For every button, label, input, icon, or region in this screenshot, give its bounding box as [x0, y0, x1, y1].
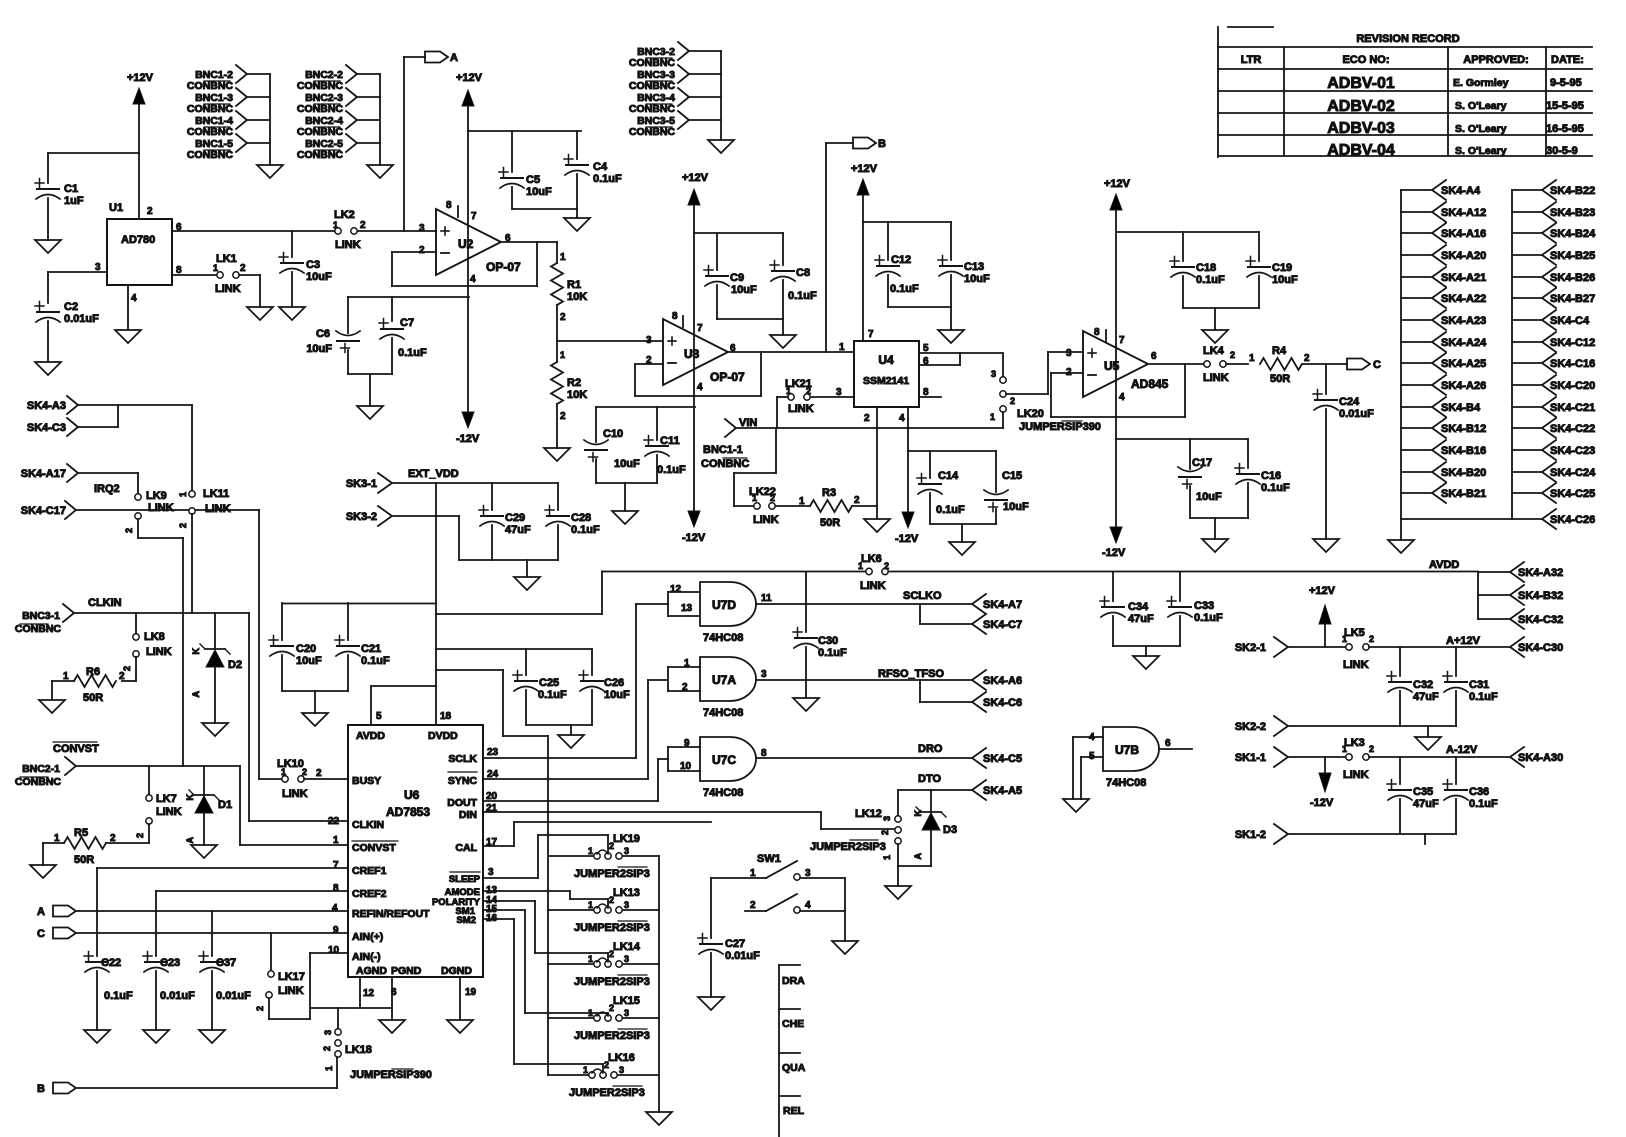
wire LK12 pin1 to ground [898, 844, 931, 886]
switch SW1 [711, 853, 845, 941]
svg-text:10uF: 10uF [1272, 274, 1298, 286]
wire C6/C7 top [348, 296, 469, 298]
svg-text:2: 2 [682, 682, 688, 693]
net label CONVST [53, 742, 99, 755]
svg-text:LINK: LINK [860, 580, 886, 592]
svg-text:0.1uF: 0.1uF [571, 524, 600, 536]
ground U4 pin2 [864, 519, 890, 532]
svg-text:K: K [913, 810, 923, 817]
svg-text:SK4-B24: SK4-B24 [1550, 228, 1596, 240]
ground U7B inputs [1063, 799, 1089, 812]
svg-text:1: 1 [752, 493, 757, 503]
power -12V (U3) [682, 511, 706, 544]
ground SK2-2 [1415, 726, 1441, 750]
svg-text:-12V: -12V [895, 533, 919, 545]
svg-text:AVDD: AVDD [356, 730, 385, 742]
svg-text:0.1uF: 0.1uF [361, 655, 390, 667]
svg-text:C30: C30 [818, 635, 838, 647]
svg-text:RFSO_TFSO: RFSO_TFSO [878, 668, 944, 680]
ground D2 [202, 723, 228, 736]
wire R1/R2 junction to U3 [557, 340, 663, 342]
zener diode D1 [185, 766, 232, 845]
connector SK4-C5 [972, 748, 1022, 768]
svg-text:SK4-C24: SK4-C24 [1550, 467, 1596, 479]
svg-text:SSM2141: SSM2141 [863, 375, 909, 387]
resistor R1 10K [551, 242, 587, 362]
svg-text:SK4-C26: SK4-C26 [1550, 514, 1595, 526]
svg-text:A-12V: A-12V [1446, 744, 1478, 756]
svg-text:CONBNC: CONBNC [629, 80, 675, 92]
connector SK1-2 [1235, 824, 1456, 844]
svg-text:2: 2 [124, 528, 134, 533]
svg-text:LK3: LK3 [1344, 737, 1365, 749]
wire CREF1 [97, 867, 348, 869]
wire VIN node [736, 397, 1003, 428]
wire C12/C13 bottom [888, 307, 951, 330]
svg-text:C28: C28 [571, 512, 591, 524]
svg-text:16-5-95: 16-5-95 [1546, 123, 1584, 135]
svg-text:CONBNC: CONBNC [187, 80, 233, 92]
capacitor C17 [1178, 439, 1222, 518]
capacitor C21 [335, 603, 390, 691]
link LK2 [333, 209, 366, 251]
svg-text:1: 1 [324, 1066, 334, 1071]
svg-text:7: 7 [697, 323, 703, 334]
ground D1 [191, 845, 217, 858]
power +12V (U5) [1104, 178, 1131, 527]
revision row ADBV-04 [1327, 142, 1578, 159]
svg-text:10uF: 10uF [614, 458, 640, 470]
svg-text:2: 2 [806, 386, 811, 396]
ground C2 [35, 362, 61, 375]
svg-text:LINK: LINK [753, 514, 779, 526]
net label A-12V [1446, 744, 1478, 756]
svg-text:C21: C21 [361, 643, 381, 655]
svg-text:JUMPER2SIP3: JUMPER2SIP3 [574, 922, 650, 934]
wire CLKIN [74, 613, 348, 821]
svg-text:SK4-A26: SK4-A26 [1441, 380, 1486, 392]
svg-text:REVISION RECORD: REVISION RECORD [1356, 33, 1459, 45]
wire SCLK0 net [756, 590, 972, 624]
ground C3 [279, 307, 305, 320]
svg-text:LK15: LK15 [613, 995, 640, 1007]
svg-text:2: 2 [119, 671, 125, 682]
svg-text:AVDD: AVDD [1429, 559, 1459, 571]
svg-text:LK6: LK6 [861, 553, 882, 565]
svg-text:2: 2 [560, 411, 566, 422]
svg-text:C20: C20 [296, 643, 316, 655]
svg-text:5: 5 [376, 711, 382, 722]
svg-text:C17: C17 [1192, 457, 1212, 469]
wire SLEEP to LK19 [483, 835, 608, 878]
capacitor C22 [84, 868, 133, 1030]
op-amp U2 [419, 200, 521, 285]
svg-text:C16: C16 [1261, 470, 1281, 482]
svg-text:SK4-A25: SK4-A25 [1441, 358, 1486, 370]
svg-text:13: 13 [681, 603, 693, 614]
IC U4 SSM2141 [836, 329, 929, 424]
capacitor C24 [1313, 364, 1374, 539]
svg-text:ADBV-01: ADBV-01 [1327, 75, 1395, 92]
svg-text:IRQ2: IRQ2 [94, 483, 120, 495]
svg-text:R1: R1 [567, 279, 581, 291]
svg-text:4: 4 [470, 274, 476, 285]
capacitor C10 [584, 407, 640, 483]
svg-text:19: 19 [465, 987, 477, 998]
capacitor C25 [513, 649, 567, 725]
svg-text:SK1-1: SK1-1 [1235, 752, 1266, 764]
wire U4 pins 5/6 [919, 353, 1002, 365]
link LK5 [1342, 627, 1510, 671]
net label A+12V [1446, 635, 1481, 647]
wire SM2 to LK16 [483, 919, 603, 1071]
svg-text:18: 18 [440, 711, 452, 722]
svg-text:LINK: LINK [1343, 659, 1369, 671]
capacitor C5 [499, 131, 552, 209]
svg-text:DRO: DRO [918, 743, 943, 755]
svg-text:PGND: PGND [391, 965, 422, 977]
svg-text:3: 3 [95, 262, 101, 273]
svg-text:1: 1 [588, 846, 593, 856]
svg-text:C4: C4 [593, 161, 608, 173]
svg-text:DOUT: DOUT [447, 797, 477, 809]
svg-text:CONBNC: CONBNC [297, 126, 343, 138]
svg-text:47uF: 47uF [1413, 798, 1439, 810]
svg-text:U5: U5 [1104, 359, 1120, 373]
svg-text:ADBV-04: ADBV-04 [1327, 142, 1395, 159]
IC U1 AD780 [95, 202, 182, 304]
svg-text:1: 1 [990, 412, 995, 422]
svg-text:AD780: AD780 [121, 234, 155, 246]
svg-text:R2: R2 [567, 377, 581, 389]
wire C6/C7 bottom [348, 374, 392, 406]
ground C20/C21 [302, 713, 328, 726]
svg-text:74HC08: 74HC08 [1106, 777, 1146, 789]
svg-text:BNC2-1: BNC2-1 [22, 763, 60, 775]
capacitor C32 [1387, 647, 1439, 726]
svg-text:CONBNC: CONBNC [15, 776, 61, 788]
wire EXT_VDD [392, 483, 558, 725]
link LK11 [178, 488, 231, 613]
wire DTO net [898, 773, 972, 816]
ground C37 [199, 1030, 225, 1043]
svg-text:E. Gormley: E. Gormley [1453, 77, 1509, 89]
svg-text:C10: C10 [603, 428, 623, 440]
node C flag [1347, 359, 1381, 372]
svg-text:SK4-C23: SK4-C23 [1550, 445, 1595, 457]
link LK3 [1342, 737, 1510, 781]
svg-text:2: 2 [1304, 353, 1310, 364]
svg-text:AD7853: AD7853 [386, 805, 430, 819]
svg-text:4: 4 [697, 382, 703, 393]
svg-text:0.01uF: 0.01uF [1339, 408, 1374, 420]
svg-text:A+12V: A+12V [1446, 635, 1481, 647]
IC U6 AD7853 [348, 725, 483, 977]
svg-text:LK19: LK19 [613, 833, 640, 845]
wire U3 output to U4 [727, 351, 853, 353]
svg-text:3: 3 [323, 1030, 333, 1035]
svg-text:LK12: LK12 [855, 808, 882, 820]
svg-text:SK4-B32: SK4-B32 [1518, 590, 1563, 602]
svg-text:2: 2 [360, 220, 366, 231]
svg-text:CONBNC: CONBNC [629, 126, 675, 138]
wire C16/C17 branch [1116, 438, 1248, 440]
svg-text:0.1uF: 0.1uF [398, 347, 427, 359]
connector SK2-1 [1235, 637, 1345, 657]
svg-text:LK11: LK11 [203, 488, 229, 500]
jumper LK16 JUMPER2SIP3 [569, 1052, 645, 1099]
AND gate U7D 74HC08 [668, 582, 772, 644]
svg-text:APPROVED:: APPROVED: [1463, 54, 1528, 66]
svg-text:OP-07: OP-07 [486, 260, 521, 274]
svg-text:SK4-C6: SK4-C6 [983, 697, 1022, 709]
capacitor C1 [35, 153, 84, 240]
svg-text:U3: U3 [684, 347, 700, 361]
wire U4 pin3 from LK21 [810, 396, 854, 398]
link LK7 [135, 766, 182, 843]
svg-text:1: 1 [583, 1065, 588, 1075]
wire IRQ2 [76, 510, 282, 779]
wire C8/C9 branch [694, 232, 783, 234]
ground jumper bus [646, 1112, 672, 1125]
wire DVDD to C25/C26 [436, 648, 592, 650]
svg-text:SK4-A20: SK4-A20 [1441, 250, 1486, 262]
connector SK2-2 [1235, 716, 1456, 736]
svg-text:U7C: U7C [712, 753, 736, 767]
svg-text:C8: C8 [796, 267, 810, 279]
svg-text:R4: R4 [1272, 345, 1287, 357]
connector SK4-C17 IRQ2 [21, 483, 120, 519]
svg-text:C15: C15 [1002, 470, 1022, 482]
svg-text:10uF: 10uF [1196, 491, 1222, 503]
capacitor C14 [917, 451, 965, 524]
wire CONVST net [76, 766, 348, 845]
svg-text:A: A [191, 691, 201, 698]
ground C10/C11 [612, 511, 638, 524]
svg-text:1: 1 [213, 263, 218, 273]
svg-text:2: 2 [147, 206, 153, 217]
power +12V (U3) [682, 172, 709, 510]
svg-text:A: A [37, 906, 45, 918]
ground C1 [35, 240, 61, 253]
svg-text:3: 3 [882, 816, 892, 821]
svg-text:1: 1 [1249, 353, 1255, 364]
svg-text:8: 8 [333, 883, 339, 894]
svg-text:SK4-C30: SK4-C30 [1518, 642, 1563, 654]
svg-text:R5: R5 [74, 827, 88, 839]
svg-text:-12V: -12V [682, 532, 706, 544]
svg-text:U7B: U7B [1115, 743, 1139, 757]
svg-text:3: 3 [619, 1065, 624, 1075]
wire LK22 to R3 [776, 505, 810, 507]
svg-text:C: C [1373, 359, 1381, 371]
svg-text:0.01uF: 0.01uF [64, 313, 99, 325]
wire C10/C11 top [596, 406, 695, 408]
wire LK17 to AIN- net [269, 953, 348, 1019]
ground C24 [1313, 539, 1339, 552]
wire SK3-2 to cap bottoms [392, 516, 558, 577]
svg-text:50R: 50R [820, 517, 840, 529]
svg-text:9-5-95: 9-5-95 [1550, 77, 1582, 89]
capacitor C30 [793, 572, 847, 698]
svg-text:8: 8 [1094, 327, 1100, 338]
svg-text:0.1uF: 0.1uF [1261, 482, 1290, 494]
connector SK4-C7 [972, 614, 1022, 634]
svg-text:D1: D1 [218, 799, 232, 811]
wire DOUT [483, 759, 668, 801]
svg-text:ECO NO:: ECO NO: [1342, 54, 1389, 66]
svg-text:LK14: LK14 [613, 941, 641, 953]
svg-text:BUSY: BUSY [352, 775, 381, 787]
svg-text:1: 1 [588, 900, 593, 910]
wire U6 pin5 AVDD [371, 686, 452, 725]
svg-text:30-5-9: 30-5-9 [1546, 145, 1578, 157]
ground C12/C13 [938, 330, 964, 343]
svg-text:47uF: 47uF [1128, 613, 1154, 625]
ground LK1 [247, 307, 273, 320]
svg-text:SK4-A16: SK4-A16 [1441, 228, 1486, 240]
capacitor C20 [269, 603, 322, 691]
capacitor C35 [1387, 757, 1439, 834]
svg-text:5: 5 [1089, 751, 1095, 762]
svg-text:SK1-2: SK1-2 [1235, 829, 1266, 841]
wire DRO net [756, 743, 972, 758]
capacitor C12 [875, 222, 919, 307]
svg-text:74HC08: 74HC08 [703, 632, 743, 644]
svg-text:C3: C3 [306, 259, 320, 271]
svg-text:U7A: U7A [712, 673, 736, 687]
svg-text:9: 9 [684, 738, 690, 749]
capacitor C3 [279, 231, 332, 307]
wire U1 pin6 to LK2 [172, 230, 334, 232]
svg-text:SK4-B22: SK4-B22 [1550, 185, 1595, 197]
revision table header [1241, 54, 1584, 66]
wire C4/C5 branch [468, 130, 581, 132]
power -12V (U5) [1102, 527, 1126, 559]
svg-text:2: 2 [419, 245, 425, 256]
svg-text:1: 1 [882, 855, 892, 860]
connector SK4-C6 [972, 692, 1022, 712]
svg-text:SYNC: SYNC [448, 775, 478, 787]
connector BNC2-1 CONVST [15, 757, 76, 788]
svg-text:LINK: LINK [788, 403, 814, 415]
svg-text:3: 3 [419, 223, 425, 234]
svg-text:SK4-B25: SK4-B25 [1550, 250, 1595, 262]
wire SM1 to LK15 [483, 910, 608, 1014]
svg-text:SK4-A30: SK4-A30 [1518, 752, 1563, 764]
svg-text:SK4-A6: SK4-A6 [983, 675, 1022, 687]
svg-text:0.1uF: 0.1uF [818, 647, 847, 659]
svg-text:CLKIN: CLKIN [88, 597, 122, 609]
power -12V (U2) [456, 412, 480, 445]
jumper LK18 JUMPERSIP390 [322, 1008, 432, 1081]
zener diode D3 [913, 790, 957, 866]
svg-text:SK4-C3: SK4-C3 [27, 422, 66, 434]
svg-text:SCLKO: SCLKO [903, 590, 942, 602]
svg-text:SK4-A17: SK4-A17 [21, 468, 66, 480]
wire LK1 pin2 to ground [239, 275, 260, 307]
connector BNC2-2..BNC2-5 group [297, 65, 393, 178]
svg-text:-12V: -12V [1310, 797, 1334, 809]
svg-text:-12V: -12V [456, 433, 480, 445]
resistor R3 50R [799, 487, 877, 529]
svg-text:1: 1 [839, 342, 845, 353]
svg-text:SCLK: SCLK [448, 753, 477, 765]
node A flag [404, 52, 458, 232]
svg-text:OP-07: OP-07 [710, 370, 745, 384]
svg-text:SK4-B20: SK4-B20 [1441, 467, 1486, 479]
ground DGND [447, 1020, 473, 1033]
ground C6/C7 [357, 406, 383, 419]
wire C12/C13 branch [863, 221, 951, 223]
wire U1 pin4 [127, 285, 129, 330]
svg-text:A: A [185, 837, 195, 844]
svg-text:C29: C29 [505, 512, 525, 524]
link LK9 [124, 490, 174, 533]
svg-text:1: 1 [588, 954, 593, 964]
svg-text:0.1uF: 0.1uF [890, 283, 919, 295]
wire C1 branch [48, 152, 139, 154]
svg-text:U2: U2 [458, 237, 474, 251]
svg-text:JUMPER2SIP3: JUMPER2SIP3 [574, 868, 650, 880]
svg-text:LK18: LK18 [345, 1044, 372, 1056]
node C flag (AIN+) [37, 928, 348, 941]
connector SK3-2 [346, 506, 392, 526]
svg-text:LK5: LK5 [1344, 627, 1365, 639]
svg-text:10uF: 10uF [604, 689, 630, 701]
capacitor C9 [704, 233, 757, 319]
svg-text:2: 2 [854, 495, 860, 506]
svg-text:CAL: CAL [455, 842, 477, 854]
svg-text:3: 3 [624, 954, 629, 964]
svg-text:CONBNC: CONBNC [629, 57, 675, 69]
svg-text:S. O'Leary: S. O'Leary [1455, 100, 1507, 112]
wire C14/C15 branch [908, 450, 996, 452]
ground R5 [30, 865, 56, 878]
svg-text:SK4-B12: SK4-B12 [1441, 423, 1486, 435]
title block table [779, 965, 806, 1137]
svg-text:2: 2 [1369, 634, 1374, 644]
AND gate U7B 74HC08 [1073, 727, 1192, 799]
svg-text:3: 3 [488, 867, 494, 878]
svg-text:4: 4 [1089, 732, 1095, 743]
svg-text:SK2-1: SK2-1 [1235, 642, 1266, 654]
svg-text:LINK: LINK [148, 502, 174, 514]
ground C16/C17 [1202, 539, 1228, 552]
ground C25/C26 [558, 735, 584, 748]
svg-text:2: 2 [110, 833, 116, 844]
svg-text:3: 3 [1066, 348, 1072, 359]
power -12V (SK1-1) [1310, 757, 1334, 809]
connector SK4-A17 [21, 464, 78, 482]
svg-text:K: K [185, 794, 195, 801]
svg-text:C1: C1 [64, 183, 78, 195]
connector BNC1-1 VIN [701, 417, 757, 470]
svg-text:SK3-2: SK3-2 [346, 511, 377, 523]
svg-text:0.01uF: 0.01uF [216, 990, 251, 1002]
power +12V (U2) [456, 72, 483, 411]
svg-text:C27: C27 [725, 938, 745, 950]
svg-text:2: 2 [240, 263, 246, 274]
svg-text:3: 3 [624, 900, 629, 910]
ground SW1 [832, 941, 858, 954]
connector SK4-B32 [1510, 585, 1563, 605]
power +12V (SK2-1) [1309, 585, 1336, 647]
svg-text:D2: D2 [228, 659, 242, 671]
svg-text:DATE:: DATE: [1551, 54, 1584, 66]
svg-text:2: 2 [316, 768, 322, 779]
svg-text:CONBNC: CONBNC [187, 126, 233, 138]
